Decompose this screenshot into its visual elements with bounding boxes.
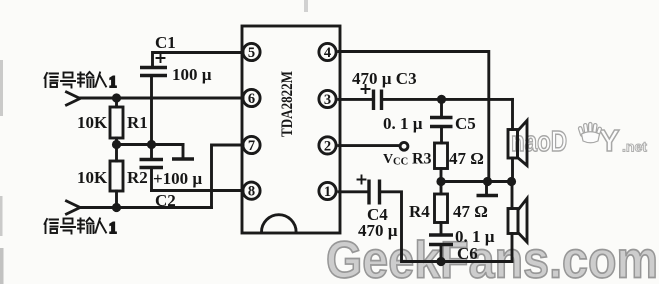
wire R4 to C6 <box>440 223 443 236</box>
wire node to R4 <box>440 182 443 195</box>
IC notch <box>262 215 297 232</box>
wire mid rail to speaker2 top <box>511 182 514 209</box>
label 10K (R1) <box>77 113 108 132</box>
label 10K (R2) <box>77 168 108 187</box>
pin 4 <box>319 43 336 61</box>
svg-text:1: 1 <box>109 74 117 91</box>
svg-text:R1: R1 <box>127 113 148 132</box>
C4 polarity + <box>358 176 366 184</box>
pin 8 <box>243 182 260 200</box>
label C4 <box>367 205 388 224</box>
capacitor C3 <box>374 90 382 111</box>
pin 2 <box>319 137 336 155</box>
wire R1/R2 node to C2 plate stub <box>117 143 184 146</box>
node R1/R2 junction <box>112 140 121 149</box>
wire pin 2 to Vcc terminal <box>339 144 400 147</box>
C3 polarity + <box>362 85 370 93</box>
wire pin 3 to C3 <box>339 98 372 101</box>
capacitor C6 <box>429 235 453 245</box>
Vcc terminal circle <box>400 142 408 150</box>
wire C2 node to top plate <box>150 145 153 160</box>
IC U1 body TDA2822M <box>242 26 340 233</box>
label 100µ (C1) <box>172 65 212 84</box>
label +100µ (C2) <box>153 169 202 188</box>
scan artifact left edge 3 <box>0 248 4 284</box>
svg-text:4: 4 <box>324 45 331 61</box>
svg-text:47 Ω: 47 Ω <box>453 202 488 221</box>
label 0.1µ (C5) <box>383 114 423 133</box>
svg-text:47 Ω: 47 Ω <box>449 149 484 168</box>
pin 6 <box>243 89 260 107</box>
speaker LS2 <box>508 199 527 243</box>
wire input1 to pin 6 <box>80 97 243 100</box>
label C6 <box>457 244 478 263</box>
node pin4 rail / ground <box>483 177 492 186</box>
wire speaker1 bottom to mid rail <box>511 158 514 182</box>
mid rail wire <box>441 180 512 183</box>
input 1 arrow terminal <box>67 92 81 105</box>
svg-text:470 µ: 470 µ <box>358 221 398 240</box>
label 47Ω (R4) <box>453 202 488 221</box>
pin 5 <box>243 43 260 61</box>
svg-text:10K: 10K <box>77 168 108 187</box>
resistor R3 <box>435 143 448 169</box>
label R1 <box>127 113 148 132</box>
pin 3 <box>319 90 336 108</box>
pin 1 <box>319 182 336 200</box>
wire pin 7 to input2 riser <box>212 145 244 208</box>
svg-text:5: 5 <box>248 45 255 61</box>
wire C6 to bottom rail <box>440 245 443 262</box>
label R2 <box>127 168 148 187</box>
svg-text:Y: Y <box>599 123 620 158</box>
capacitor C2 <box>140 160 164 168</box>
resistor R1 <box>110 107 123 138</box>
wire R3 to mid rail <box>440 169 443 182</box>
resistor R2 <box>110 161 123 191</box>
svg-text:1: 1 <box>109 220 117 237</box>
svg-text:100 µ: 100 µ <box>172 65 212 84</box>
svg-text:470 µ C3: 470 µ C3 <box>352 69 417 88</box>
capacitor C5 <box>430 118 453 127</box>
wire pin 4 to right rail <box>339 52 489 182</box>
svg-text:CC: CC <box>393 157 408 168</box>
capacitor C1 <box>140 68 167 76</box>
svg-text:V: V <box>383 152 393 167</box>
label 0.1µ (C6) <box>455 227 495 246</box>
input 2 arrow terminal <box>67 201 81 214</box>
capacitor C4 <box>369 180 380 205</box>
svg-text:0. 1 µ: 0. 1 µ <box>383 114 423 133</box>
svg-text:7: 7 <box>248 138 255 154</box>
scan artifact left edge 2 <box>0 196 3 236</box>
wire pin 1 to C4 <box>339 190 367 193</box>
node input2/R2 junction <box>112 203 121 212</box>
label 470µ C3 <box>352 69 417 88</box>
wire C2 bottom to pin 8 <box>152 189 244 192</box>
watermark laoDZY.net (decorative) <box>511 123 647 159</box>
label 信号输入1 (bottom input) <box>45 218 117 237</box>
label C1 <box>155 33 176 52</box>
svg-text:C5: C5 <box>455 114 476 133</box>
node mid rail / speakers <box>507 177 516 186</box>
label 47Ω (R3) <box>449 149 484 168</box>
wire C3 to speaker 1 <box>383 98 513 101</box>
wire to speaker1 top <box>511 99 514 129</box>
svg-text:3: 3 <box>324 92 331 108</box>
ground <box>477 182 499 196</box>
svg-text:R2: R2 <box>127 168 148 187</box>
wire C1 top to pin 5 <box>153 53 244 68</box>
svg-text:.net: .net <box>622 139 647 155</box>
label R4 <box>409 202 430 221</box>
node R3/R4 mid rail <box>436 177 445 186</box>
pin 7 <box>243 136 260 154</box>
wire node to C5 <box>440 99 443 117</box>
svg-text:R3: R3 <box>412 151 432 168</box>
wire C4 to bottom rail <box>381 192 512 262</box>
node C3/C5 junction <box>437 95 446 104</box>
svg-text:TDA2822M: TDA2822M <box>279 71 296 137</box>
wire C1 bottom down through input wire to C2 node <box>150 76 153 145</box>
svg-text:C1: C1 <box>155 33 176 52</box>
wire C2 bottom plate down to pin8 wire <box>150 168 153 191</box>
label 信号输入1 (top input) <box>45 72 117 91</box>
wire R1 bottom to node <box>115 138 118 145</box>
svg-text:1: 1 <box>324 184 331 200</box>
svg-text:R4: R4 <box>409 202 430 221</box>
watermark GeekFans.com (decorative, drawn under circuit) <box>326 232 658 284</box>
svg-text:10K: 10K <box>77 113 108 132</box>
scan artifact left edge <box>0 60 3 116</box>
svg-text:8: 8 <box>248 184 255 200</box>
svg-text:2: 2 <box>324 138 331 154</box>
wire R2 to nodes <box>115 145 118 208</box>
svg-text:+100 µ: +100 µ <box>153 169 202 188</box>
wire C5 to R3 <box>440 127 443 144</box>
label C5 <box>455 114 476 133</box>
label C2 <box>155 191 176 210</box>
speaker LS1 <box>508 121 527 166</box>
IC label TDA2822M <box>279 71 296 137</box>
node input1/R1 junction <box>112 93 121 102</box>
label R3 <box>412 151 432 168</box>
scan artifact top <box>304 0 308 12</box>
wire input2 to riser <box>80 206 212 209</box>
label Vcc <box>383 152 408 168</box>
label 470µ (C4) <box>358 221 398 240</box>
resistor R4 <box>435 194 448 223</box>
node C6/bottom rail <box>436 257 445 266</box>
wire junction to R1 top <box>115 98 118 107</box>
C1 polarity + <box>157 54 165 62</box>
open plate element right of C2 <box>172 145 194 160</box>
node C2 top connection <box>147 140 156 149</box>
wire speaker2 bottom to bottom rail <box>511 234 514 262</box>
svg-text:6: 6 <box>248 91 255 107</box>
